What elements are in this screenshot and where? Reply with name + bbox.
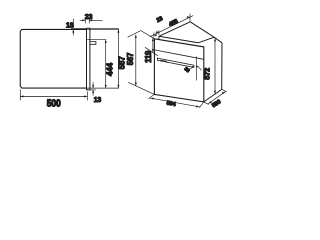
svg-text:594: 594 (166, 101, 177, 109)
body top-front edge (159, 36, 198, 43)
dimension 23 ticks (85, 17, 89, 23)
dimension 23 arrow lines (80, 19, 103, 21)
svg-text:567: 567 (126, 52, 135, 65)
oven body outline (20, 29, 86, 88)
top face left receding edge (159, 22, 190, 37)
567 top leader (roof) (128, 31, 155, 39)
control panel divider (154, 50, 203, 59)
svg-text:13: 13 (94, 95, 102, 104)
door bottom extension line (90, 89, 96, 91)
handle slot (160, 60, 167, 61)
594 leaders (149, 94, 204, 107)
svg-text:458: 458 (168, 18, 180, 28)
38 extension line (195, 57, 197, 81)
svg-text:23: 23 (156, 16, 165, 25)
dimension 590 line (208, 91, 226, 104)
handle-top extension line (444 top ref) (87, 39, 106, 41)
bottom-right receding edge (204, 89, 222, 102)
dimension 444 line (105, 40, 107, 88)
svg-text:572: 572 (202, 68, 211, 80)
dim ticks 23/458 (154, 14, 190, 38)
handle bar (157, 58, 194, 67)
dimension 587 line (117, 29, 119, 88)
top right corner edge A-B (214, 37, 222, 43)
svg-text:18: 18 (66, 21, 74, 30)
back-right vertical edge (221, 43, 223, 90)
dimension 13 arrows (92, 82, 94, 95)
38 arrow right (198, 66, 202, 70)
dimension 567 line (135, 35, 137, 86)
top face back edge (190, 22, 214, 37)
body front-left vertical sliver (158, 36, 160, 39)
svg-text:444: 444 (104, 62, 114, 76)
svg-text:119: 119 (144, 50, 153, 63)
body right ascending edge (198, 37, 214, 43)
119 bottom leader (145, 47, 158, 56)
567 bottom leader (128, 82, 154, 94)
fascia front face (154, 39, 203, 102)
dimension 572 line (214, 38, 216, 94)
door handle (side view) (90, 41, 96, 44)
svg-text:500: 500 (47, 97, 61, 109)
body bottom extension line (87, 87, 119, 89)
38 arrow left (189, 67, 194, 70)
dimension 18 arrows (72, 19, 74, 36)
dim arrowheads 23/458 (154, 16, 190, 36)
590 leaders (204, 89, 227, 104)
dimension 119 line (152, 38, 154, 52)
dimension 500 line (20, 95, 87, 97)
svg-text:38: 38 (183, 66, 191, 74)
oven door panel (87, 28, 90, 90)
body top extension line (87, 28, 119, 30)
svg-text:23: 23 (85, 12, 93, 21)
dimension 500 extension lines (20, 89, 87, 100)
door top extension line (71, 27, 119, 29)
dimension 23/458 diagonal line (150, 16, 193, 37)
dimension 594 line (150, 98, 201, 107)
